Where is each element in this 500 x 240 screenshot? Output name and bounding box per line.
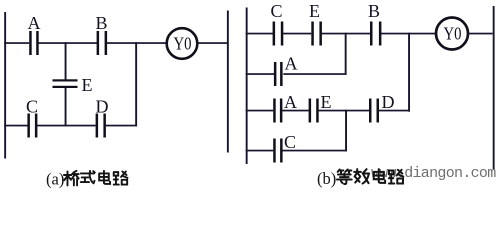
wire: bottom rung (a) rail to contact C (4, 125, 28, 127)
wire: rung1 (b) rail to contact C (246, 33, 274, 35)
right power rail (b) (493, 6, 495, 170)
contact E (b rung1) (311, 22, 322, 46)
svg-text:(a): (a) (46, 170, 64, 189)
wire: junction J3 vertical rung3-rung4 (b) (345, 110, 347, 152)
svg-text:D: D (96, 97, 109, 117)
wire: rung3 (b) D to J2 (379, 110, 410, 112)
char 等 (337, 170, 352, 184)
svg-text:(b): (b) (317, 169, 336, 188)
caption (a) hanzi 桥式电路 (64, 171, 128, 186)
char 电 (374, 169, 385, 183)
svg-text:A: A (285, 54, 298, 74)
contact A (b rung2) (274, 62, 283, 86)
wire: junction J2 vertical rung1-rung3 (b) (408, 33, 410, 112)
svg-text:C: C (26, 97, 38, 117)
wire: E branch vertical upper (a) (65, 42, 67, 80)
wire: rung3 (b) E to D (318, 110, 369, 112)
left power rail (a) (4, 12, 6, 159)
svg-text:E: E (82, 75, 93, 95)
wire: rung1 (b) E to B (322, 33, 370, 35)
wire: bottom rung (a) contact D to up-junction (106, 125, 137, 127)
contact D (b rung3) (369, 99, 379, 123)
wire: vertical junction bottom rung to top rung (a) (135, 42, 137, 126)
contact E (a, vertical orientation) (53, 79, 78, 88)
wire: rung1 (b) C to E (283, 33, 311, 35)
wire: coil Y0 to right rail (a) (198, 42, 228, 44)
contact C (a) (27, 114, 37, 138)
wire: rung4 (b) contact C to J3 (282, 150, 347, 152)
svg-text:Y0: Y0 (174, 34, 192, 54)
svg-text:A: A (284, 92, 297, 112)
char 路 (114, 171, 128, 184)
char 路 (389, 170, 403, 184)
svg-text:C: C (270, 1, 282, 21)
svg-text:B: B (368, 1, 380, 21)
contact E (b rung3) (309, 99, 319, 123)
char 桥 (64, 171, 79, 186)
svg-text:E: E (309, 1, 320, 21)
wire: top rung (a) segment rail to contact A (4, 42, 29, 44)
contact C (b rung1) (273, 22, 284, 46)
svg-text:D: D (382, 92, 395, 112)
char 式 (81, 171, 95, 183)
contact C (b rung4) (273, 139, 282, 163)
wire: bottom rung (a) contact C to contact D (37, 125, 96, 127)
contact A (b rung3) (273, 99, 282, 123)
wire: rung2 (b) contact A to J1 (283, 73, 346, 75)
char 效 (354, 169, 369, 183)
svg-text:Y0: Y0 (444, 24, 462, 44)
contact B (a) (97, 31, 108, 55)
svg-text:E: E (321, 92, 332, 112)
right power rail (a) (227, 11, 229, 153)
wire: E branch vertical lower (a) (65, 88, 67, 127)
wire: rung3 (b) rail to contact A (246, 110, 274, 112)
contact D (a) (96, 114, 106, 138)
wire: rung2 (b) rail to contact A (246, 73, 276, 75)
contact A (a) (29, 31, 39, 55)
coil Y0 (a) (167, 28, 198, 59)
wire: top rung (a) contact A to contact B (38, 42, 97, 44)
caption (b) hanzi 等效电路 (337, 169, 403, 184)
coil Y0 (b) (436, 18, 468, 50)
char 电 (99, 171, 110, 184)
wire: rung3 (b) A to E (282, 110, 309, 112)
svg-text:C: C (284, 132, 296, 152)
wire: rung1 (b) B to coil (381, 33, 436, 35)
wire: coil Y0 to right rail (b) (468, 33, 492, 35)
left power rail (b) (246, 8, 248, 165)
svg-text:B: B (95, 13, 107, 33)
wire: top rung (a) contact B to coil Y0 (107, 42, 167, 44)
wire: rung4 (b) rail to contact C (246, 150, 274, 152)
wire: junction J1 vertical rung1-rung2 (b) (345, 33, 347, 74)
svg-text:A: A (28, 13, 41, 33)
contact B (b rung1) (370, 22, 381, 46)
